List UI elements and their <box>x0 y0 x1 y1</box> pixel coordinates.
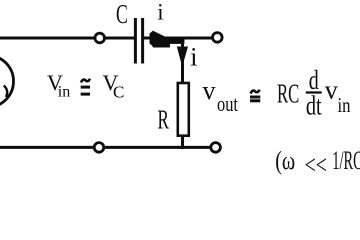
svg-text:in: in <box>338 93 351 117</box>
svg-text:v: v <box>325 75 338 104</box>
svg-text:(ω: (ω <box>275 146 295 175</box>
svg-text:out: out <box>217 91 238 116</box>
svg-text:in: in <box>58 84 70 101</box>
svg-text:C: C <box>116 0 128 29</box>
svg-text:C: C <box>113 83 124 102</box>
svg-text:1/RC: 1/RC <box>332 146 360 175</box>
svg-text:i: i <box>190 43 197 72</box>
svg-text:<<: << <box>305 151 327 180</box>
svg-text:RC: RC <box>277 78 299 109</box>
svg-text:v: v <box>203 76 216 105</box>
svg-text:R: R <box>158 104 170 135</box>
svg-text:i: i <box>157 0 163 25</box>
svg-text:dt: dt <box>306 90 322 121</box>
